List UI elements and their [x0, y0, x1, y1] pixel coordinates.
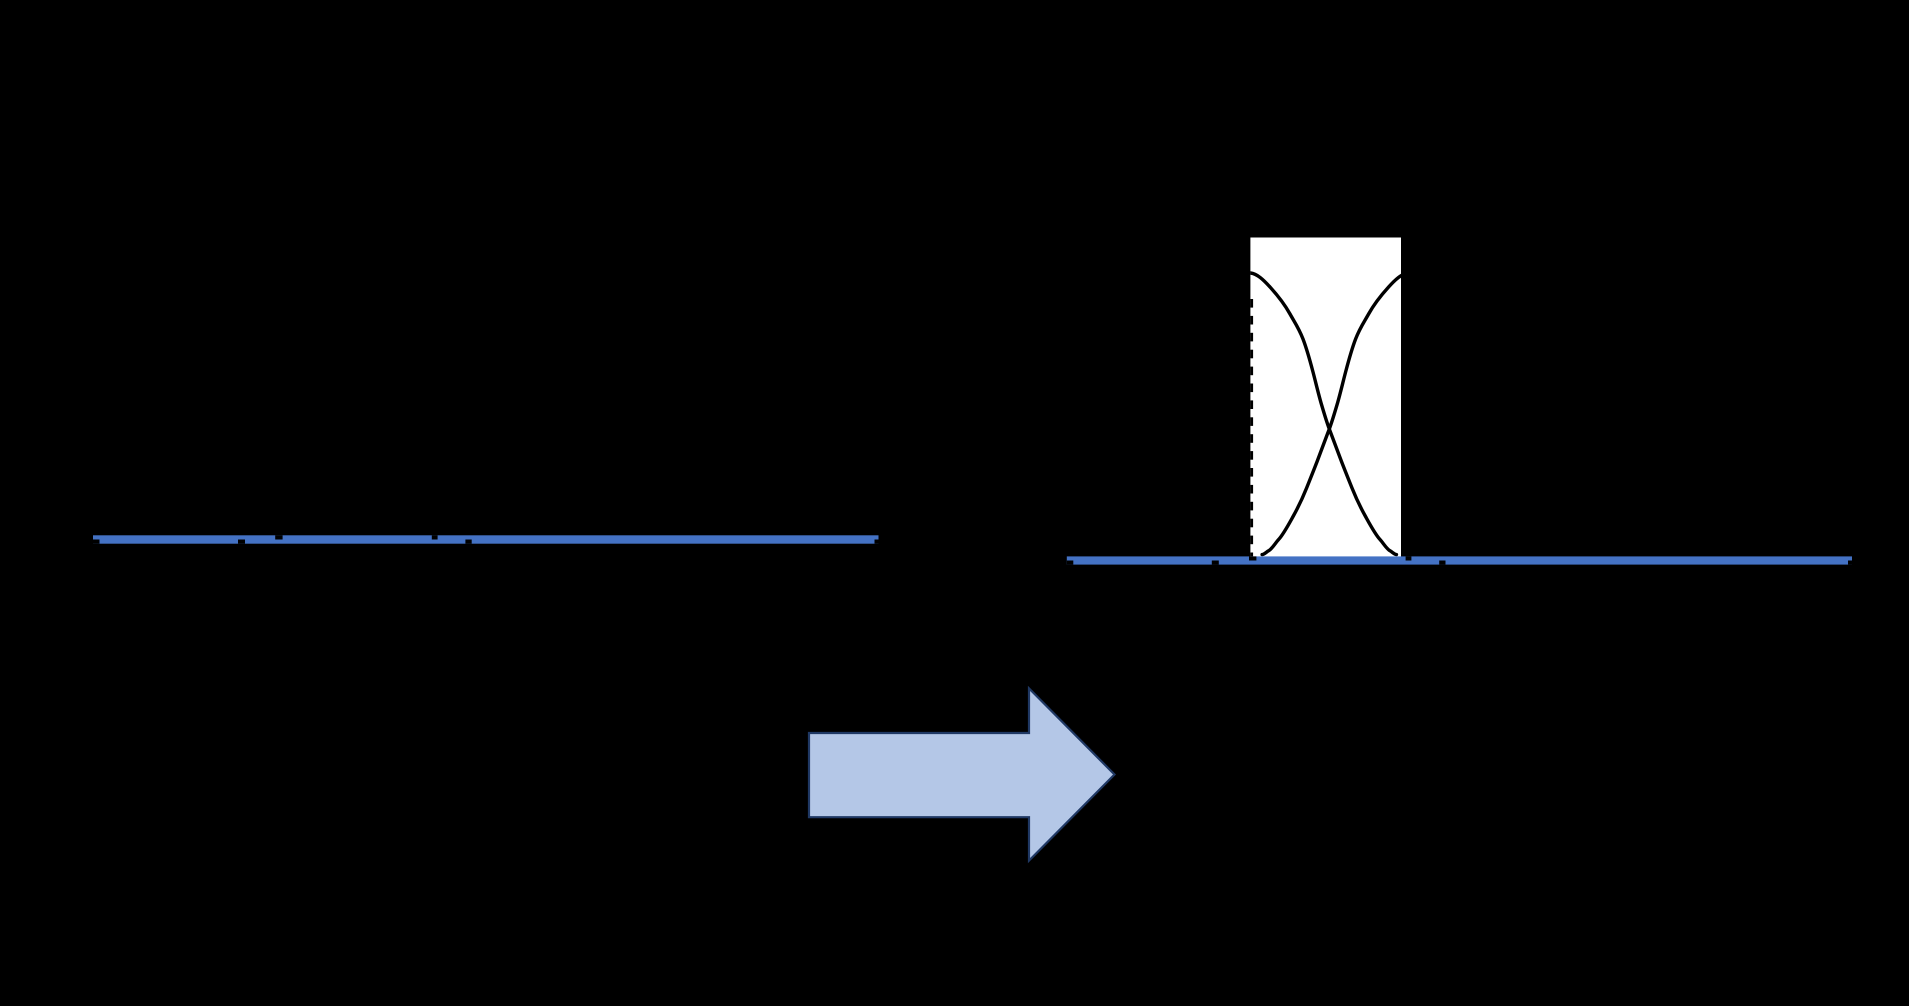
wire notch — [1212, 561, 1219, 565]
sigmoid curve B (ascending, mirror of A about x=1329.3) — [1262, 273, 1408, 555]
left blue timeline wire — [93, 535, 879, 543]
wire notch — [1249, 556, 1256, 560]
wire notch — [465, 540, 471, 544]
wire notch end — [875, 540, 879, 544]
wire notch — [432, 535, 438, 539]
wire notch — [1406, 556, 1412, 560]
block arrow — [809, 688, 1115, 860]
wire notch — [238, 540, 245, 544]
right blue timeline wire — [1067, 556, 1852, 564]
white plot panel — [1250, 238, 1401, 560]
wire notch — [275, 535, 282, 539]
wire notch — [1439, 561, 1445, 565]
wire notch end — [1848, 561, 1852, 565]
wire notch — [1067, 561, 1074, 565]
dashed boundary line — [1250, 299, 1253, 556]
sigmoid curve A (descending) — [1251, 273, 1397, 555]
wire notch — [93, 540, 100, 544]
